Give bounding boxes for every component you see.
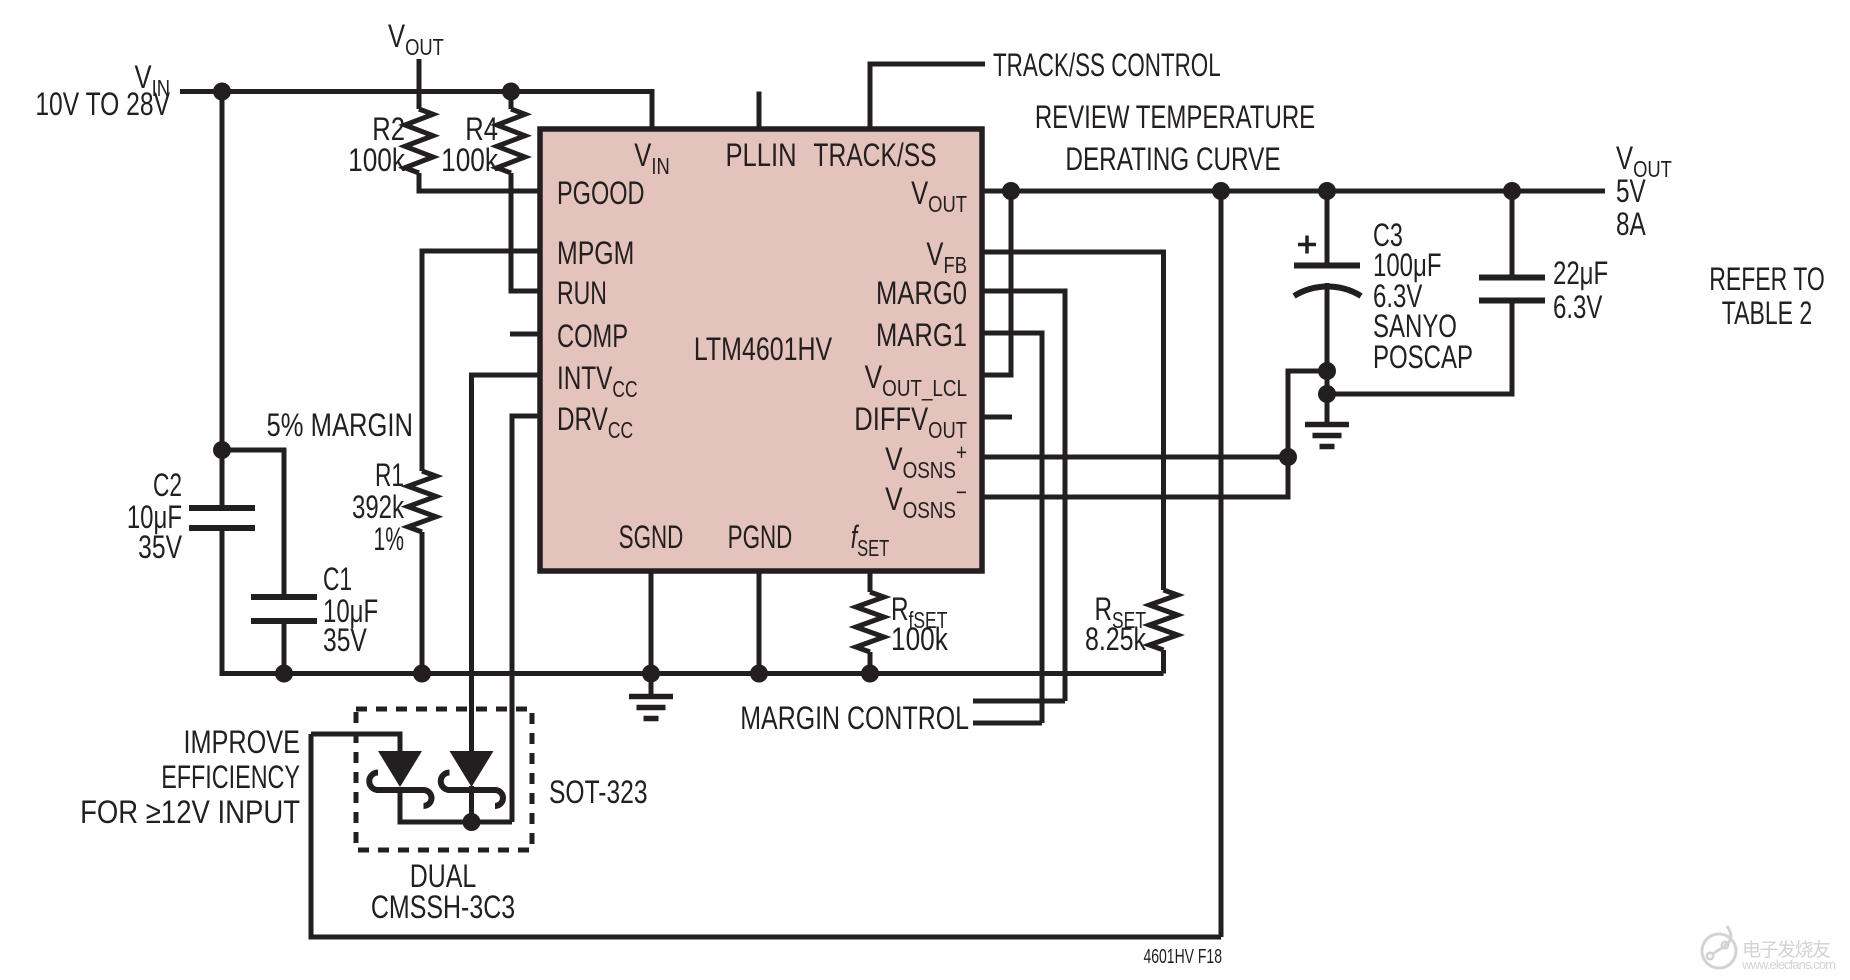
svg-text:R2: R2 — [372, 112, 405, 147]
svg-text:SOT-323: SOT-323 — [549, 775, 648, 811]
svg-text:5V: 5V — [1616, 174, 1646, 210]
svg-text:REFER TO: REFER TO — [1709, 261, 1825, 297]
svg-text:392k: 392k — [352, 489, 405, 525]
svg-text:5% MARGIN: 5% MARGIN — [267, 408, 413, 443]
svg-text:R4: R4 — [465, 112, 498, 147]
svg-text:PLLIN: PLLIN — [725, 138, 796, 173]
svg-text:10V TO 28V: 10V TO 28V — [35, 87, 170, 123]
svg-text:100k: 100k — [441, 144, 498, 179]
svg-text:CMSSH-3C3: CMSSH-3C3 — [371, 890, 515, 926]
svg-text:MARG1: MARG1 — [876, 318, 967, 353]
svg-text:FOR ≥12V INPUT: FOR ≥12V INPUT — [80, 795, 300, 830]
svg-text:8A: 8A — [1616, 207, 1646, 243]
svg-text:www.elecfans.com: www.elecfans.com — [1741, 957, 1836, 972]
svg-text:PGND: PGND — [728, 519, 793, 555]
svg-text:C1: C1 — [323, 561, 352, 597]
svg-text:35V: 35V — [138, 530, 182, 566]
svg-text:LTM4601HV: LTM4601HV — [694, 332, 833, 368]
svg-text:22μF: 22μF — [1553, 255, 1608, 291]
svg-text:RUN: RUN — [557, 275, 607, 311]
svg-text:8.25k: 8.25k — [1085, 622, 1147, 658]
svg-text:IMPROVE: IMPROVE — [183, 725, 300, 761]
svg-text:DERATING CURVE: DERATING CURVE — [1065, 142, 1280, 178]
svg-text:COMP: COMP — [557, 319, 628, 354]
svg-text:MARGIN CONTROL: MARGIN CONTROL — [740, 701, 969, 737]
svg-text:35V: 35V — [323, 623, 367, 659]
svg-text:TRACK/SS CONTROL: TRACK/SS CONTROL — [993, 47, 1221, 83]
svg-text:EFFICIENCY: EFFICIENCY — [161, 759, 300, 794]
svg-text:TRACK/SS: TRACK/SS — [813, 138, 936, 174]
svg-text:6.3V: 6.3V — [1553, 289, 1602, 325]
svg-text:1%: 1% — [373, 520, 404, 557]
svg-text:4601HV F18: 4601HV F18 — [1143, 944, 1222, 967]
svg-text:C2: C2 — [153, 467, 182, 503]
svg-text:R1: R1 — [375, 457, 404, 493]
svg-text:MARG0: MARG0 — [876, 276, 967, 311]
svg-text:SGND: SGND — [619, 519, 684, 555]
svg-text:100k: 100k — [348, 144, 405, 179]
svg-text:MPGM: MPGM — [557, 236, 634, 272]
svg-text:PGOOD: PGOOD — [557, 176, 645, 211]
svg-text:100k: 100k — [891, 623, 948, 658]
svg-text:POSCAP: POSCAP — [1373, 339, 1473, 375]
svg-text:REVIEW TEMPERATURE: REVIEW TEMPERATURE — [1035, 99, 1315, 135]
svg-text:TABLE 2: TABLE 2 — [1722, 295, 1812, 331]
